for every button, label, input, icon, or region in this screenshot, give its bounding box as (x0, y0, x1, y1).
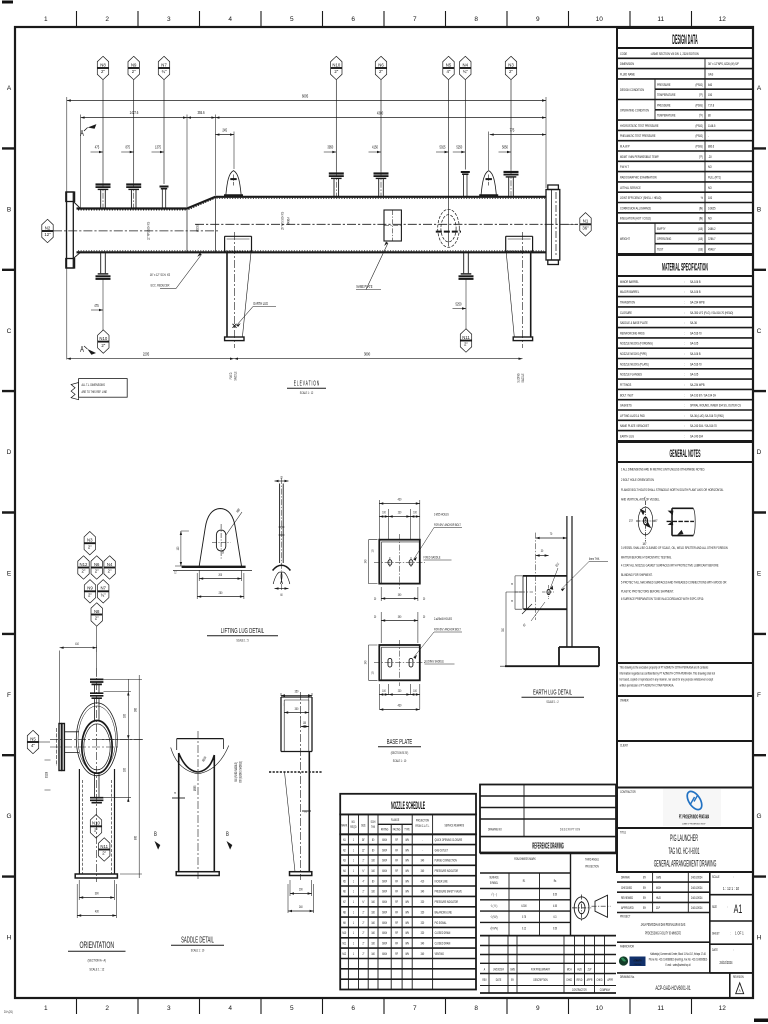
svg-text:2": 2" (362, 910, 364, 915)
svg-text:150: 150 (708, 92, 712, 97)
svg-text:: ASME SECTION VIII DIV 1, 20: : ASME SECTION VIII DIV 1, 2024 EDITION (650, 51, 699, 56)
svg-text:CLOSURE: CLOSURE (620, 310, 633, 315)
svg-text:RF: RF (395, 868, 398, 873)
svg-text:PROJECT: PROJECT (620, 914, 631, 919)
svg-text:JASA PENYEDIAAN DAN PENYALURAN: JASA PENYEDIAAN DAN PENYALURAN GAS (641, 922, 686, 927)
svg-text:160: 160 (371, 899, 375, 904)
svg-text:This drawing is the exclus: This drawing is the exclusive property o… (620, 665, 709, 670)
svg-text:880.6: 880.6 (708, 144, 714, 149)
svg-text:840: 840 (708, 82, 712, 87)
svg-text:600#: 600# (382, 951, 387, 956)
svg-text:WEIGHT: WEIGHT (620, 237, 630, 242)
svg-text:FULL (RT1): FULL (RT1) (708, 175, 721, 180)
svg-text:¾": ¾" (161, 69, 167, 74)
svg-text::: : (684, 413, 685, 418)
svg-text:F: F (757, 692, 761, 699)
svg-text:√(VVV): √(VVV) (490, 926, 498, 931)
svg-text:9: 9 (536, 1005, 540, 1012)
svg-text:NO.: NO. (352, 819, 356, 824)
svg-text:N12: N12 (342, 951, 346, 956)
svg-text:REFERENCE DRAWING: REFERENCE DRAWING (532, 842, 564, 850)
dim 100 (lug height) (175, 531, 189, 566)
svg-text:PT. PROSERVINDO PRATAMA: PT. PROSERVINDO PRATAMA (679, 814, 710, 820)
svg-text:Kalibata(s) Commercial Center,: Kalibata(s) Commercial Center, Block 11 … (650, 951, 706, 956)
svg-text:0.0625: 0.0625 (708, 206, 716, 211)
svg-text:BY: BY (643, 875, 646, 880)
svg-text:F: F (7, 692, 11, 699)
nozzle N8 (2in) on 12in barrel (96, 182, 111, 209)
svg-text:RATING: RATING (381, 827, 389, 832)
svg-text:NO: NO (708, 185, 712, 190)
svg-text:320: 320 (421, 910, 425, 915)
svg-text:2-Ø25 HOLES: 2-Ø25 HOLES (434, 512, 449, 517)
svg-text:N12: N12 (80, 562, 88, 567)
svg-text:Ø1128: Ø1128 (44, 772, 49, 778)
svg-text:SA-516 70: SA-516 70 (690, 331, 702, 336)
svg-text:P.W.H.T: P.W.H.T (620, 165, 629, 170)
saddle detail front view (171, 731, 229, 880)
svg-text:4.50: 4.50 (553, 903, 557, 908)
svg-text:600#: 600# (382, 920, 387, 925)
svg-text:10: 10 (596, 16, 604, 23)
svg-text:GENERAL ARRANGEMENT DRAWING: GENERAL ARRANGEMENT DRAWING (654, 858, 717, 869)
svg-text:N5: N5 (343, 879, 346, 884)
svg-text:11: 11 (657, 1005, 664, 1012)
svg-text:MATERIAL SPECIFICATION: MATERIAL SPECIFICATION (662, 261, 708, 273)
bottom drain nozzle N10b (96, 252, 111, 278)
svg-text:N8: N8 (100, 62, 106, 67)
svg-text:N2: N2 (45, 225, 51, 230)
inlet flange N2 (weld neck) (66, 192, 81, 268)
svg-text:2": 2" (362, 941, 364, 946)
svg-text:CHECKED: CHECKED (621, 885, 633, 890)
svg-text:RF: RF (395, 920, 398, 925)
svg-text:FOR PRELIMINARY: FOR PRELIMINARY (531, 967, 550, 972)
svg-text:PURGE CONNECTION: PURGE CONNECTION (435, 858, 457, 863)
svg-text:SERVICE REMARKS: SERVICE REMARKS (445, 823, 465, 828)
drawing number box (617, 972, 753, 974)
svg-text:DESIGN CONDITION: DESIGN CONDITION (620, 87, 644, 92)
svg-text:N9: N9 (87, 586, 93, 591)
owner box (617, 696, 753, 741)
balloon N10 bottom (102, 279, 104, 331)
svg-text:SIZE: SIZE (361, 823, 366, 828)
svg-text:20: 20 (374, 596, 377, 601)
svg-text:100: 100 (175, 546, 180, 550)
svg-text:5025: 5025 (440, 145, 446, 150)
svg-text:NO: NO (708, 165, 712, 170)
hidden side nozzle N5 (dashed) (438, 209, 460, 247)
svg-text:VENTING: VENTING (435, 951, 444, 956)
svg-text:6: 6 (351, 1005, 355, 1012)
lifting lug (left) on shell (224, 171, 243, 196)
svg-text:20: 20 (280, 475, 283, 480)
svg-text:100: 100 (303, 720, 307, 725)
svg-text:5850: 5850 (502, 145, 508, 150)
balloon N3 (orientation) (84, 532, 95, 555)
svg-text:2: 2 (105, 16, 109, 23)
svg-text::: : (730, 931, 731, 936)
svg-text:160: 160 (371, 858, 375, 863)
svg-text:4": 4" (362, 879, 364, 884)
svg-text:SADDLE DETAIL: SADDLE DETAIL (181, 936, 214, 944)
svg-text:FABRICATOR: FABRICATOR (620, 944, 635, 949)
svg-text:2": 2" (362, 930, 364, 935)
client box (617, 741, 753, 788)
svg-text:RF: RF (395, 951, 398, 956)
svg-text:REVD: REVD (577, 977, 583, 982)
svg-text:PLASTIC PROTECTORS BEFORE SHIP: PLASTIC PROTECTORS BEFORE SHIPMENT. (621, 589, 674, 594)
balloon N4 (orientation) (104, 556, 115, 579)
svg-text:CONTRACTOR: CONTRACTOR (620, 789, 636, 794)
svg-text:230: 230 (398, 510, 402, 515)
svg-text:¾": ¾" (463, 69, 469, 74)
svg-text:BLINDING FOR SHIPMENT.: BLINDING FOR SHIPMENT. (621, 572, 652, 577)
svg-text:EARTH LUG: EARTH LUG (620, 434, 634, 439)
svg-text:ALL T.L. DIMENSIONS: ALL T.L. DIMENSIONS (82, 382, 105, 387)
sliding saddle base plate (381, 612, 418, 643)
saddle web (earth lug) (567, 516, 572, 647)
svg-text:3: 3 (167, 16, 171, 23)
svg-text:N3: N3 (343, 858, 346, 863)
svg-text:MATTER BEFORE HYDROSTATIC TEST: MATTER BEFORE HYDROSTATIC TESTING. (621, 555, 672, 560)
svg-text:ZLP: ZLP (588, 967, 592, 972)
svg-text:ARE TO THIS REF. LINE: ARE TO THIS REF. LINE (82, 390, 107, 395)
svg-text:WN: WN (405, 910, 408, 915)
svg-text:2": 2" (82, 569, 86, 574)
svg-text:4: 4 (228, 16, 232, 23)
svg-text:6: 6 (351, 16, 355, 23)
svg-text:24/10/2024: 24/10/2024 (719, 960, 732, 965)
svg-text:N6: N6 (94, 562, 100, 567)
svg-text::: : (684, 362, 685, 367)
svg-text:2": 2" (102, 851, 106, 856)
balloon N7 (orientation) (98, 580, 109, 603)
svg-text:written permission of PT AZIMU: written permission of PT AZIMUTH CITRA P… (620, 683, 675, 688)
svg-text:24/10/2024: 24/10/2024 (691, 885, 703, 890)
svg-text:A: A (757, 85, 762, 92)
svg-text:SLIDING SADDLE: SLIDING SADDLE (425, 659, 444, 664)
svg-text:600#: 600# (382, 848, 387, 853)
balloon N10 (335, 80, 337, 171)
svg-text:information regarded as confid: information regarded as confidential by … (620, 671, 716, 676)
svg-text:A1: A1 (734, 903, 743, 916)
svg-text:EMPTY: EMPTY (657, 226, 666, 231)
svg-text:2": 2" (379, 69, 383, 74)
svg-text:24/10/2024: 24/10/2024 (691, 895, 703, 900)
svg-text:7: 7 (413, 1005, 417, 1012)
svg-text:3800: 3800 (364, 352, 370, 357)
anchor bolt holes (388, 560, 392, 566)
design data table (617, 28, 753, 48)
svg-text:WN: WN (405, 858, 408, 863)
svg-text::: : (733, 947, 734, 952)
svg-text:E: E (7, 571, 12, 578)
svg-text:DRAWN: DRAWN (621, 875, 630, 880)
svg-text:FIXED SADDLE: FIXED SADDLE (424, 555, 441, 560)
nozzle schedule table (340, 794, 476, 815)
svg-text:100: 100 (413, 688, 417, 693)
fixed saddle base plate (379, 540, 420, 584)
svg-text:SCH/: SCH/ (371, 819, 376, 824)
svg-text:N11: N11 (100, 844, 108, 849)
svg-text:N4: N4 (343, 868, 346, 873)
svg-text:SADDLE: SADDLE (520, 373, 525, 382)
balloon N5 (27, 730, 38, 753)
svg-text:LIFTING LUG DETAIL: LIFTING LUG DETAIL (221, 627, 265, 635)
svg-text:200: 200 (299, 887, 303, 892)
svg-text:BY: BY (511, 977, 514, 982)
svg-text:BY: BY (643, 895, 646, 900)
vessel shell: 16in barrel (215, 196, 546, 198)
svg-text:(PSIG): (PSIG) (695, 123, 703, 128)
balloon N6 (orientation) (91, 556, 102, 579)
svg-text:ROUGHNESS MARK: ROUGHNESS MARK (514, 856, 535, 861)
svg-text:12: 12 (174, 570, 177, 575)
svg-text:OWNER: OWNER (620, 698, 629, 703)
svg-text:30: 30 (541, 548, 544, 553)
svg-text:N10: N10 (99, 336, 107, 341)
svg-text:70: 70 (550, 531, 553, 536)
svg-text:KICKER LINE: KICKER LINE (435, 879, 448, 884)
nozzle N7 (3/4in) on 12in barrel (160, 187, 169, 209)
svg-text:INSULATION (HOT / COLD): INSULATION (HOT / COLD) (620, 216, 651, 221)
svg-text:1148.5: 1148.5 (708, 123, 715, 128)
svg-text:600#: 600# (382, 879, 387, 884)
svg-text:PNEUMATIC TEST PRESSURE: PNEUMATIC TEST PRESSURE (620, 134, 656, 139)
size box (710, 920, 753, 922)
svg-text:20: 20 (423, 596, 426, 601)
svg-text:THK: THK (371, 824, 375, 829)
svg-text:16" NPS SCH XS: 16" NPS SCH XS (280, 212, 285, 230)
svg-text:BY: BY (643, 885, 646, 890)
svg-text:N10: N10 (92, 821, 100, 826)
svg-text:390: 390 (398, 592, 402, 597)
svg-text:MDMT / MIN PERMISSIBLE TEMP.: MDMT / MIN PERMISSIBLE TEMP. (620, 154, 659, 159)
svg-text::: : (684, 290, 685, 295)
svg-text:CHKD: CHKD (597, 977, 603, 982)
svg-text:PROJECTION: PROJECTION (416, 818, 429, 823)
svg-text:G: G (6, 813, 11, 820)
svg-text:NOZZLE FLANGES: NOZZLE FLANGES (620, 372, 643, 377)
svg-text:6 SURFACE PREPARATION TO BE I: 6 SURFACE PREPARATION TO BE IN ACCORDANC… (621, 596, 704, 601)
svg-text:N8: N8 (343, 910, 346, 915)
side dims 350/300/100 (281, 693, 312, 723)
svg-text:SA-240 304: SA-240 304 (690, 434, 703, 439)
svg-text:N9: N9 (343, 920, 346, 925)
svg-text::: : (727, 904, 728, 909)
svg-text:SA-240 304 / SA-516 70: SA-240 304 / SA-516 70 (690, 424, 717, 429)
note 2 bolt-hole orientation diagrams (629, 496, 695, 546)
svg-text:2": 2" (509, 69, 513, 74)
signature rows (617, 871, 710, 873)
svg-text:24/10/2024: 24/10/2024 (691, 875, 703, 880)
svg-text:36": 36" (582, 226, 589, 231)
svg-text:N10: N10 (342, 930, 346, 935)
svg-text:6.3: 6.3 (554, 914, 557, 919)
svg-text:MARK: MARK (341, 823, 347, 828)
svg-text:BALANCING LINE: BALANCING LINE (435, 910, 452, 915)
45 deg chamfer note (522, 604, 532, 614)
svg-text:2": 2" (101, 343, 105, 348)
reference drawing block (480, 785, 616, 853)
earth lug marker on fixed saddle (233, 324, 237, 328)
svg-text:5: 5 (290, 16, 294, 23)
svg-text:D: D (7, 449, 12, 456)
svg-text:Ø406.4: Ø406.4 (286, 217, 291, 225)
svg-text:12: 12 (719, 1005, 727, 1012)
svg-text:2": 2" (88, 593, 92, 598)
svg-text::: : (684, 341, 685, 346)
svg-text:(PSIG): (PSIG) (695, 82, 703, 87)
svg-text:250: 250 (219, 590, 223, 595)
svg-text:N7: N7 (343, 899, 346, 904)
svg-text:2": 2" (132, 69, 136, 74)
balloon N8 (orientation) (91, 603, 102, 626)
svg-text:SPIRAL WOUND, INNER 304 SS, OU: SPIRAL WOUND, INNER 304 SS, OUTER CS (690, 403, 742, 408)
svg-text:FOR Ø¾" ANCHOR BOLT: FOR Ø¾" ANCHOR BOLT (434, 522, 461, 527)
svg-text:NOZZLE SCHEDULE: NOZZLE SCHEDULE (391, 799, 425, 811)
svg-text:N5: N5 (30, 736, 36, 741)
dim 200 / 250 (197, 570, 244, 599)
svg-text:PRESSURE: PRESSURE (657, 82, 671, 87)
svg-text:5 PROTECT ALL MACHINED SURFAC: 5 PROTECT ALL MACHINED SURFACES AND THRE… (621, 580, 727, 585)
svg-text:N2: N2 (343, 848, 346, 853)
svg-text:2: 2 (105, 1005, 109, 1012)
svg-text:0°: 0° (644, 496, 646, 501)
dims 20/20 (515, 576, 522, 609)
svg-text:160: 160 (371, 889, 375, 894)
svg-text:1427.6: 1427.6 (130, 110, 139, 115)
svg-text:SA-350 LF2 (FLG) / SA-516 70 (: SA-350 LF2 (FLG) / SA-516 70 (HEAD) (690, 310, 733, 315)
svg-text:OPERATING CONDITION: OPERATING CONDITION (620, 108, 649, 113)
svg-text:SA-36: SA-36 (690, 320, 697, 325)
svg-text:WN: WN (405, 889, 408, 894)
svg-text::: : (684, 331, 685, 336)
svg-text:6005: 6005 (302, 94, 308, 99)
hole d12 (547, 589, 550, 594)
svg-text:6mm THK.: 6mm THK. (589, 556, 600, 561)
svg-text:2": 2" (95, 616, 99, 621)
svg-text:ACP-GAD-HCV6001-01: ACP-GAD-HCV6001-01 (655, 985, 690, 992)
svg-text:B: B (226, 831, 229, 838)
svg-text:APPR: APPR (607, 977, 613, 982)
svg-text:4380: 4380 (377, 111, 383, 116)
svg-text::: : (684, 300, 685, 305)
svg-text:CONTRACTOR: CONTRACTOR (572, 987, 587, 992)
svg-text:B: B (7, 206, 11, 213)
svg-text:ZLP: ZLP (656, 905, 660, 910)
svg-text:N9: N9 (131, 62, 137, 67)
svg-text:-20: -20 (708, 154, 712, 159)
nozzle N3 (2in) on 16in barrel (504, 170, 519, 197)
svg-text:600#: 600# (382, 910, 387, 915)
dim 410 (60, 645, 97, 723)
svg-text:PIG SIGNAL: PIG SIGNAL (435, 920, 447, 925)
svg-text:360: 360 (133, 708, 138, 712)
svg-text::: : (684, 393, 685, 398)
svg-text:AZIMUTH: AZIMUTH (633, 959, 641, 963)
svg-text:16" x 12" SCH. XS: 16" x 12" SCH. XS (150, 272, 171, 277)
svg-text:(IN): (IN) (699, 206, 703, 211)
svg-text:5250: 5250 (456, 145, 462, 150)
svg-text:838 (SLIDING SADDLE): 838 (SLIDING SADDLE) (238, 761, 243, 783)
svg-text::: : (684, 372, 685, 377)
svg-text:1: 1 (44, 1005, 48, 1012)
orientation top nozzle (N3) (90, 679, 103, 721)
svg-text:120: 120 (371, 671, 375, 675)
svg-text:24/10/2024: 24/10/2024 (691, 905, 703, 910)
svg-text:390: 390 (398, 614, 402, 619)
svg-text:COMPANY: COMPANY (600, 987, 611, 992)
svg-text:1: 1 (44, 16, 48, 23)
svg-text:NOZZLE NECKS (FORGING): NOZZLE NECKS (FORGING) (620, 341, 653, 346)
svg-text:EARTH LUG: EARTH LUG (254, 301, 269, 306)
svg-text:SADDLE & BASE PLATE: SADDLE & BASE PLATE (620, 320, 648, 325)
svg-text:√ ( V ): √ ( V ) (491, 903, 498, 908)
balloon N6 (380, 80, 382, 171)
revision rows (480, 945, 616, 947)
svg-text:Ø585: Ø585 (192, 785, 197, 791)
orientation side nozzle N5 (57, 724, 80, 771)
svg-text:600#: 600# (382, 858, 387, 863)
svg-text:60: 60 (280, 592, 283, 597)
svg-text:800: 800 (133, 836, 138, 840)
svg-text:E-mail : sales@azimuthcp.id: E-mail : sales@azimuthcp.id (665, 962, 690, 967)
svg-text:WN: WN (405, 879, 408, 884)
svg-text:36": 36" (362, 837, 365, 842)
svg-text:HUD: HUD (577, 967, 582, 972)
svg-text:7: 7 (413, 16, 417, 23)
svg-text:FITTINGS: FITTINGS (620, 382, 632, 387)
svg-text:PIG LAUNCHER: PIG LAUNCHER (670, 833, 698, 844)
balloon N9 (orientation) (84, 580, 95, 603)
svg-text:(PSIG): (PSIG) (695, 134, 703, 139)
svg-text:(°F): (°F) (699, 92, 703, 97)
svg-text:N3: N3 (87, 538, 93, 543)
svg-text:12": 12" (362, 848, 365, 853)
svg-text:SA-106 B: SA-106 B (690, 290, 701, 295)
svg-text:SCALE 1 : 10: SCALE 1 : 10 (393, 758, 407, 763)
svg-text:600#: 600# (382, 837, 387, 842)
svg-text:NAME PLATE / BRACKET: NAME PLATE / BRACKET (620, 424, 649, 429)
svg-text:WN: WN (405, 899, 408, 904)
general notes (617, 442, 753, 462)
svg-text:REVISION: REVISION (733, 974, 744, 979)
svg-text:PRESSURE INDICATOR: PRESSURE INDICATOR (435, 868, 458, 873)
svg-text:APPR: APPR (587, 977, 593, 982)
svg-text:430: 430 (95, 909, 99, 914)
dim 240 left (369, 540, 378, 584)
svg-text:WN: WN (405, 951, 408, 956)
svg-text:1375: 1375 (155, 145, 161, 150)
svg-text:GASKETS: GASKETS (620, 403, 632, 408)
balloon N5 (448, 80, 450, 247)
centerline 16in barrel (195, 223, 578, 225)
svg-text:FLUID NAME: FLUID NAME (620, 72, 636, 77)
svg-text:DATE: DATE (496, 977, 502, 982)
R80 leader (226, 512, 242, 535)
svg-text:717.8: 717.8 (708, 103, 714, 108)
scale box (710, 894, 753, 896)
saddle detail side view (269, 692, 322, 880)
svg-text:340: 340 (421, 858, 425, 863)
svg-text:300: 300 (295, 706, 299, 711)
svg-text:BY: BY (643, 905, 646, 910)
svg-text:BASE PLATE: BASE PLATE (387, 738, 412, 746)
svg-text:100: 100 (413, 510, 417, 515)
dims below sliding plate (379, 684, 420, 709)
